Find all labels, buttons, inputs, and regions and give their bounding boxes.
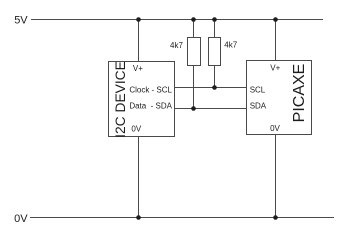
wire: I2C device V+ pin to 5V rail xyxy=(138,20,140,62)
junction: R2 / 5V rail xyxy=(212,17,217,22)
PICAXE box U2 xyxy=(247,61,312,135)
I2C device box U1 xyxy=(109,62,175,137)
wire: PICAXE V+ pin to 5V rail xyxy=(275,20,277,61)
svg-text:SCL: SCL xyxy=(250,86,266,95)
junction: I2C 0V / 0V rail xyxy=(136,215,141,220)
wire: 0V supply rail xyxy=(30,217,334,219)
svg-text:5V: 5V xyxy=(14,15,28,27)
resistor R1 4k7 pull-up (SDA) xyxy=(188,38,201,66)
svg-text:4k7: 4k7 xyxy=(224,41,237,50)
junction: R1 / SDA net xyxy=(191,106,196,111)
wire: R1 top lead to 5V rail xyxy=(193,20,195,38)
svg-text:V+: V+ xyxy=(270,63,280,72)
wire: R2 bottom lead down to SCL net xyxy=(214,66,216,88)
svg-text:V+: V+ xyxy=(133,64,143,73)
svg-text:SDA: SDA xyxy=(250,102,267,111)
svg-text:Data - SDA: Data - SDA xyxy=(129,102,172,111)
svg-text:0V: 0V xyxy=(270,124,280,133)
junction: I2C V+ / 5V rail xyxy=(136,17,141,22)
junction: R1 / 5V rail xyxy=(191,17,196,22)
wire: 5V supply rail xyxy=(31,19,323,21)
resistor R2 4k7 pull-up (SCL) xyxy=(209,38,221,66)
wire: SDA net between I2C device and PICAXE xyxy=(174,108,247,110)
svg-text:4k7: 4k7 xyxy=(170,41,183,50)
wire: SCL net between I2C device and PICAXE xyxy=(174,87,247,89)
svg-text:0V: 0V xyxy=(131,124,141,133)
wire: R1 bottom lead down to SDA net xyxy=(193,66,195,109)
junction: R2 / SCL net xyxy=(212,85,217,90)
svg-text:PICAXE: PICAXE xyxy=(291,64,308,123)
svg-text:Clock - SCL: Clock - SCL xyxy=(129,85,172,94)
wire: I2C device 0V pin to 0V rail xyxy=(138,137,140,218)
wire: R2 top lead to 5V rail xyxy=(214,20,216,38)
svg-text:0V: 0V xyxy=(14,213,28,225)
junction: PICAXE 0V / 0V rail xyxy=(273,215,278,220)
junction: PICAXE V+ / 5V rail xyxy=(273,17,278,22)
wire: PICAXE 0V pin to 0V rail xyxy=(275,135,277,218)
svg-text:I2C DEVICE: I2C DEVICE xyxy=(113,61,128,138)
